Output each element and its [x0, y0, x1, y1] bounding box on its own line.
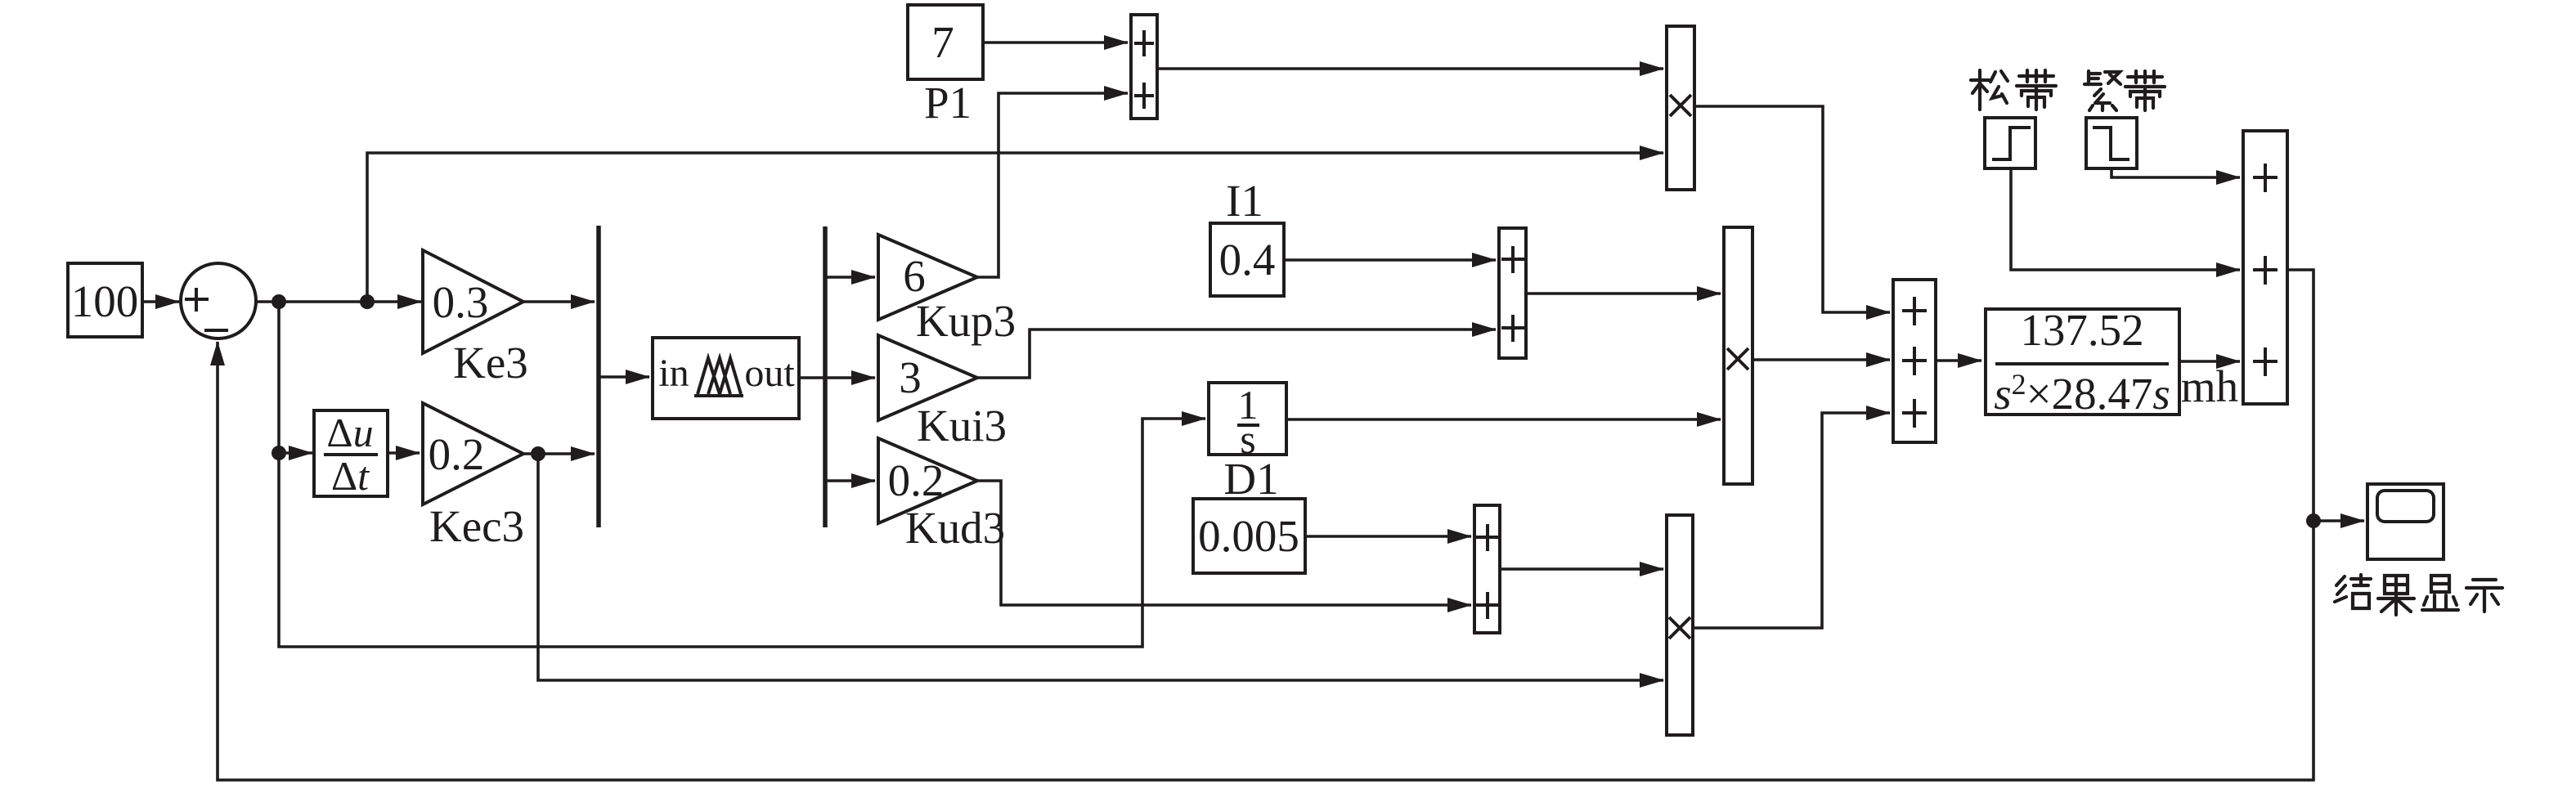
- wire loose belt to final sum: [2011, 168, 2240, 270]
- wire I sum to Ki multiply: [1526, 292, 1721, 295]
- wire Ki multiply to big sum: [1752, 358, 1890, 361]
- wire Kui3 to I sum: [977, 329, 1496, 378]
- label dai (belt) character 2: [2125, 71, 2165, 110]
- wire P sum to Kp multiply: [1157, 67, 1663, 70]
- svg-text:7: 7: [931, 17, 954, 67]
- svg-text:137.52: 137.52: [2020, 305, 2143, 355]
- svg-text:100: 100: [71, 276, 139, 326]
- svg-text:0.2: 0.2: [888, 455, 945, 505]
- wire e up to Kp multiply: [367, 153, 1663, 302]
- wire fuzzy to demux: [799, 376, 824, 379]
- node ec junction: [531, 446, 545, 461]
- wire demux to Kup3: [825, 276, 875, 279]
- wire demux to Kud3: [825, 479, 875, 482]
- gain Kup3: [878, 235, 1016, 346]
- integrator block 1/s: [1209, 382, 1286, 462]
- wire du/dt to Kec3: [388, 451, 420, 455]
- label shi (show) character: [2466, 580, 2502, 612]
- wire Kup3 to P sum: [977, 93, 1128, 277]
- svg-text:Kui3: Kui3: [917, 401, 1007, 451]
- node e junction 2: [360, 294, 375, 309]
- label jie (result) character: [2335, 575, 2371, 608]
- label jin (tight) character: [2085, 71, 2120, 110]
- wire ec down to Kd multiply: [538, 454, 1663, 680]
- wire final sum feedback: [218, 270, 2313, 780]
- derivative block du/dt: [314, 410, 388, 499]
- P sum block: [1131, 15, 1157, 119]
- wire 0.005 to D sum: [1305, 535, 1471, 538]
- label song (loose) character: [1971, 70, 2008, 110]
- gain Kec3: [423, 403, 524, 551]
- svg-text:6: 6: [903, 251, 926, 301]
- node ec tap: [272, 446, 286, 460]
- svg-text:Δu: Δu: [326, 410, 373, 455]
- gain Ke3: [423, 250, 528, 388]
- fuzzy controller block: [653, 338, 799, 419]
- svg-text:s2×28.47s: s2×28.47s: [1994, 368, 2170, 419]
- node scope tap: [2306, 513, 2321, 528]
- wire Kd multiply to big sum: [1693, 413, 1890, 628]
- wire tight belt to final sum: [2112, 168, 2240, 177]
- constant block 100: [68, 263, 142, 337]
- wire Kud3 to D sum: [977, 481, 1471, 605]
- svg-text:Kup3: Kup3: [916, 296, 1016, 346]
- label dai (belt) character: [2017, 70, 2056, 110]
- wire integrator to Ki multiply: [1286, 418, 1721, 421]
- svg-text:P1: P1: [924, 78, 972, 128]
- svg-text:3: 3: [899, 352, 922, 402]
- Kp multiply block: [1667, 26, 1694, 190]
- gain Kui3: [878, 335, 1007, 451]
- I sum block: [1499, 228, 1526, 358]
- label xian (display) character: [2422, 576, 2458, 610]
- svg-text:0.005: 0.005: [1198, 511, 1299, 561]
- plant transfer function block: [1986, 305, 2179, 419]
- svg-text:0.2: 0.2: [429, 429, 485, 479]
- wire 7 to P sum: [983, 41, 1128, 44]
- svg-text:mh: mh: [2181, 361, 2238, 411]
- final sum block: [2243, 131, 2287, 404]
- label guo (fruit) character: [2378, 576, 2414, 615]
- constant block 7 P1: [908, 5, 983, 128]
- wire demux to Kui3: [825, 376, 875, 379]
- svg-text:Kec3: Kec3: [429, 501, 524, 551]
- sum junction circle: [181, 263, 256, 338]
- wire tap to scope: [2313, 519, 2364, 522]
- D sum block: [1474, 505, 1500, 633]
- wire big sum to plant: [1936, 359, 1981, 362]
- svg-text:0.3: 0.3: [433, 277, 489, 327]
- Ki multiply block: [1724, 227, 1752, 484]
- wire Kp multiply to big sum: [1694, 106, 1890, 312]
- scope block: [2367, 484, 2444, 559]
- svg-text:Kud3: Kud3: [905, 503, 1005, 553]
- Kd multiply block: [1667, 515, 1693, 735]
- svg-text:in: in: [658, 352, 689, 395]
- svg-text:D1: D1: [1223, 454, 1278, 504]
- node e junction 1: [272, 294, 286, 309]
- wire e down to integrator path: [279, 302, 1205, 647]
- wire mux to fuzzy: [599, 375, 649, 379]
- wire tap to du/dt: [279, 451, 312, 455]
- svg-text:Δt: Δt: [331, 453, 370, 499]
- svg-text:I1: I1: [1226, 176, 1263, 226]
- svg-text:Ke3: Ke3: [453, 338, 528, 388]
- svg-text:out: out: [744, 352, 795, 395]
- wire 100 to sum: [142, 300, 179, 303]
- wire Ke3 to mux: [523, 300, 595, 303]
- wire sum to Ke3: [256, 300, 421, 303]
- demux bar: [823, 226, 828, 527]
- gain Kud3: [878, 438, 1005, 553]
- wire D sum to Kd multiply: [1500, 567, 1663, 571]
- wire 0.4 to I sum: [1284, 258, 1496, 262]
- wire plant to final sum: [2179, 360, 2240, 363]
- constant block 0.4 I1: [1210, 176, 1284, 296]
- step source loose belt: [1985, 118, 2035, 168]
- step source tight belt: [2086, 118, 2137, 168]
- constant block 0.005 D1: [1193, 454, 1305, 573]
- svg-text:0.4: 0.4: [1219, 235, 1276, 285]
- mux bar: [596, 226, 601, 527]
- wire Kec3 to mux: [523, 452, 595, 455]
- big sum block: [1893, 280, 1936, 442]
